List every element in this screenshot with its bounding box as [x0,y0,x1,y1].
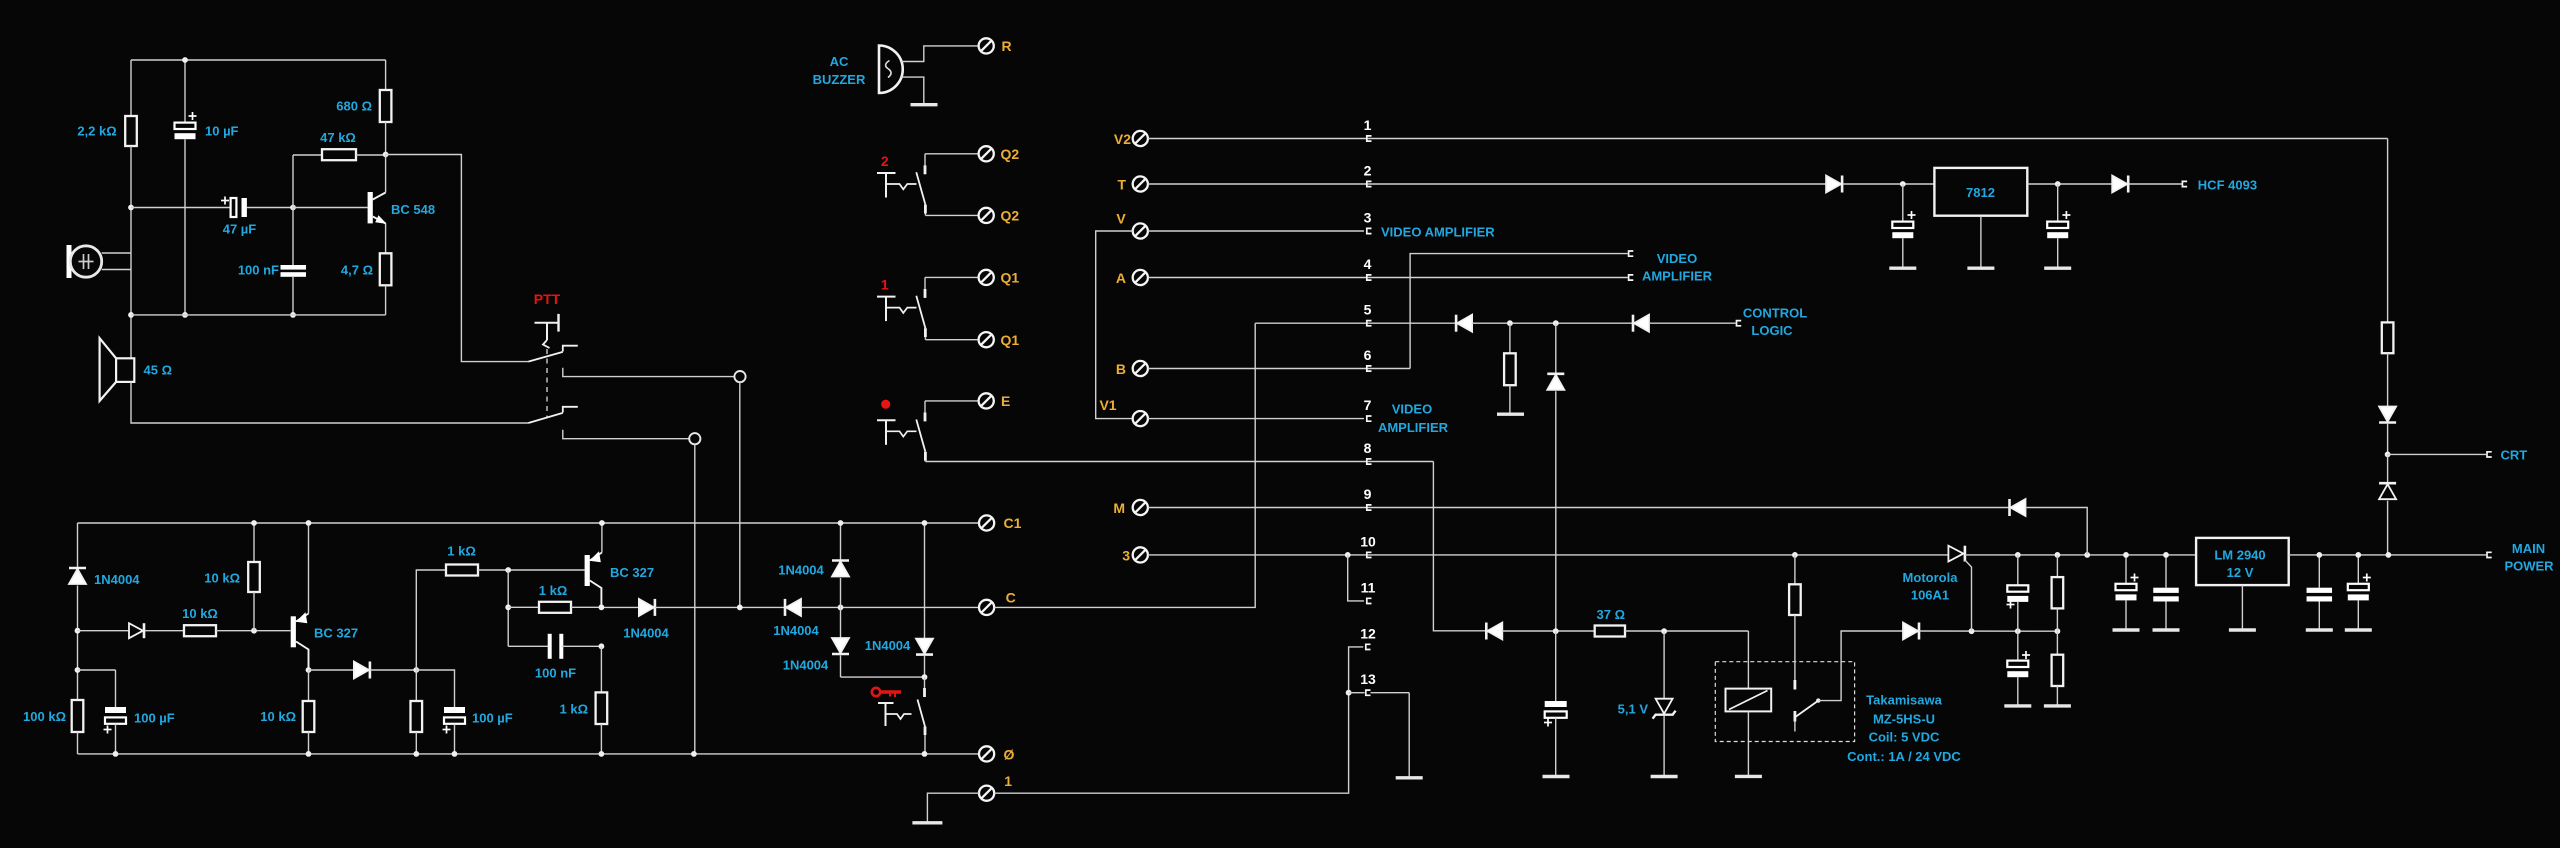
capacitor 47 uF [131,207,231,209]
wire diode down to relay line [1555,391,1557,631]
svg-text:V2: V2 [1114,131,1131,147]
terminal T [1133,176,1148,191]
svg-text:VIDEO: VIDEO [1392,402,1432,417]
ground 7812 [1967,267,1994,270]
wire base branch down [507,570,509,646]
relay dashed enclosure [1715,662,1854,742]
svg-text:BC 327: BC 327 [314,626,358,641]
svg-text:1N4004: 1N4004 [94,572,140,587]
wire buzzer to ground [902,77,924,105]
svg-text:1N4004: 1N4004 [865,638,911,653]
resistor right edge [2382,322,2394,353]
capacitor main in ceramic [2165,555,2167,588]
resistor 10 kOhm vertical [253,523,255,562]
wire 9 to main line [2026,508,2088,555]
switch key blade [918,700,926,727]
svg-text:1N4004: 1N4004 [783,658,829,673]
svg-text:10: 10 [1360,534,1376,550]
wire terminal 1 right to wires 12 13 [994,647,1363,793]
wire Q1 top [925,276,979,278]
svg-text:AMPLIFIER: AMPLIFIER [1378,420,1449,435]
svg-text:2: 2 [881,153,889,169]
terminal B [1133,361,1148,376]
regulator 7812 [1934,168,2027,216]
svg-text:Coil: 5 VDC: Coil: 5 VDC [1869,730,1940,745]
node junction CRT [2385,452,2391,458]
terminal A [1133,270,1148,285]
ground 7812 output cap [2044,267,2071,270]
relay coil [1747,631,1749,689]
node junction 100nF right [599,643,605,649]
node junction 1k third bottom rail [599,751,605,757]
svg-text:1 kΩ: 1 kΩ [560,702,589,717]
diode relay output [1903,623,1918,640]
wire 11 stub [1348,555,1364,601]
terminal O [979,746,994,761]
node junction cap main in ceramic [2163,552,2169,558]
node junction resistor branch [1507,320,1513,326]
wire 4 A line [1148,277,1628,279]
switch actuator [877,419,896,421]
svg-text:MZ-5HS-U: MZ-5HS-U [1873,712,1935,727]
terminal M [1133,500,1148,515]
svg-text:12 V: 12 V [2227,565,2254,580]
wire collector node to PTT [386,155,529,362]
wire Q1 bottom [925,339,978,341]
capacitor below relay line [2017,631,2019,660]
terminal V [1133,223,1148,238]
node junction cap mid branch [2015,628,2021,634]
resistor 680 Ohm [385,60,387,90]
node junction left col bottom rail [128,312,134,318]
svg-text:7: 7 [1364,397,1372,413]
node junction base branch [505,567,511,573]
svg-text:1 kΩ: 1 kΩ [539,583,568,598]
ground cap main out polar [2345,628,2372,631]
resistor 37 Ohm [1595,626,1625,637]
capacitor 7812 output [2057,184,2059,222]
terminal C1 [979,515,994,530]
node junction C1 line 10k [251,520,257,526]
svg-text:VIDEO: VIDEO [1657,251,1697,266]
wire node A down to C line [739,382,741,607]
switch key top contact [924,677,926,688]
diode 1N4004 wire8 [1485,623,1488,640]
switch top contact [924,277,926,289]
node junction main line right [2386,552,2392,558]
svg-text:LM 2940: LM 2940 [2214,548,2265,563]
svg-text:Takamisawa: Takamisawa [1866,693,1942,708]
capacitor main in polarized [2125,555,2127,584]
svg-text:Ø: Ø [1004,747,1015,763]
ground relay coil [1735,775,1762,778]
resistor 1 kOhm third [600,646,602,692]
wire C1 line [78,522,980,524]
diode 1N4004 down from C1 line at key switch [924,523,926,639]
svg-text:1: 1 [1004,773,1012,789]
node junction left col base line [128,205,134,211]
node junction SCR gate [1969,628,1975,634]
node junction x416 column [413,667,419,673]
wire speaker to PTT lower pole [131,382,528,423]
ground 7812 input cap [1889,267,1916,270]
resistor wire5 to ground [1509,323,1511,353]
wire left column bottom circuit [77,523,79,568]
diode 1N4004 collector output [309,669,354,671]
node junction node B bottom rail [691,751,697,757]
svg-text:9: 9 [1364,486,1372,502]
switch blade [916,172,925,204]
diode on T line [1826,176,1841,193]
thyristor Motorola 106A1 [1948,546,1963,562]
terminal R [979,38,994,53]
svg-text:45 Ω: 45 Ω [144,363,173,378]
node junction cap branch left [75,667,81,673]
wire 13 [1349,692,1365,694]
svg-text:Q1: Q1 [1001,270,1020,286]
svg-text:100 nF: 100 nF [535,666,576,681]
svg-text:100 µF: 100 µF [472,711,513,726]
connector circle node A [734,371,745,382]
svg-text:M: M [1113,500,1125,516]
svg-text:CONTROL: CONTROL [1743,306,1807,321]
node junction 100uF right bottom rail [452,751,458,757]
svg-text:2: 2 [1364,163,1372,179]
node junction key switch top [922,674,928,680]
diode right edge up outline [2387,454,2389,483]
svg-text:VIDEO AMPLIFIER: VIDEO AMPLIFIER [1381,225,1495,240]
capacitor 100 uF right [416,670,454,707]
wire 6 B line [1148,368,1410,370]
node junction res divider wire10 [2055,552,2061,558]
resistor 10 kOhm below BC327 [308,670,310,701]
svg-text:BC 548: BC 548 [391,202,435,217]
wire 13 down to ground [1408,693,1410,778]
svg-text:R: R [1002,38,1012,54]
node junction C1 line at 924 [922,520,928,526]
svg-text:4,7 Ω: 4,7 Ω [341,263,373,278]
wire main power line out [2289,554,2486,556]
wire V to V1 bracket [1096,231,1133,419]
wire V2 riser right edge [2387,139,2389,323]
svg-text:11: 11 [1361,580,1376,596]
svg-text:7812: 7812 [1966,185,1995,200]
switch PTT pole 1 [528,352,563,362]
wire buzzer to R terminal [902,46,979,62]
node junction BC327 second emitter [599,520,605,526]
svg-text:T: T [1117,177,1126,193]
node junction BC327 collector [306,667,312,673]
wire C line left segment [601,606,639,608]
wire left column [130,60,132,116]
capacitor main out ceramic [2318,555,2320,588]
wire branch to key switch [841,676,925,678]
wire C line right to wire 5 riser [994,323,1255,607]
terminal Q2 bottom [979,208,994,223]
node junction node A on C line [737,605,743,611]
capacitor 100 nF second [508,645,549,647]
node junction x416 bottom rail [413,751,419,757]
svg-text:LOGIC: LOGIC [1751,323,1793,338]
wire 1k to BC327 second base [478,569,585,571]
svg-text:2,2 kΩ: 2,2 kΩ [77,124,116,139]
switch E red dot [881,400,890,409]
relay switch pivot [1816,698,1820,702]
svg-text:8: 8 [1364,440,1372,456]
svg-text:BC 327: BC 327 [610,565,654,580]
svg-text:POWER: POWER [2504,559,2554,574]
svg-text:AMPLIFIER: AMPLIFIER [1642,269,1713,284]
diode 1N4004 up from C1 line [840,523,842,561]
node junction 100nF bottom [290,312,296,318]
wire relay common [1818,631,1903,701]
node junction wire9 join [2084,552,2090,558]
wire 6 riser to video amplifier [1410,254,1628,369]
diode 1N4004 on C line pointing left [784,599,787,616]
wire Q2 bottom [925,214,978,216]
wire 7812 ground pin [1980,216,1982,269]
node junction bottom rail BC327 [306,751,312,757]
resistor 47 kOhm [292,155,294,208]
wire E top [925,400,979,402]
svg-text:Q2: Q2 [1001,208,1020,224]
svg-text:MAIN: MAIN [2512,541,2545,556]
terminal V1 [1133,411,1148,426]
node junction 100uF bottom rail [113,751,119,757]
svg-text:Cont.: 1A / 24 VDC: Cont.: 1A / 24 VDC [1847,749,1961,764]
svg-text:13: 13 [1360,671,1376,687]
svg-text:Q1: Q1 [1001,332,1020,348]
node junction relay resistor wire 10 [1792,552,1798,558]
svg-text:1: 1 [1364,117,1372,133]
svg-text:100 kΩ: 100 kΩ [23,709,66,724]
node junction 10uF top rail [182,57,188,63]
node junction cap main out ceramic [2316,552,2322,558]
connector circle node B [689,433,700,444]
wire mic top lead [102,252,131,254]
switch bottom contact [924,452,927,461]
ground cap main in polar [2113,628,2140,631]
node junction up diode C1 line [838,520,844,526]
switch top contact [924,154,926,166]
wire 10 after SCR [1965,554,2196,556]
node junction base node [290,205,296,211]
switch bottom contact [924,328,927,337]
ground wire5 resistor [1497,413,1524,416]
wire bottom rail [78,753,980,755]
svg-text:C1: C1 [1004,515,1022,531]
switch key actuator [878,702,894,704]
node junction cap1 wire10 [2015,552,2021,558]
speaker 45 Ohm [116,358,134,382]
diode right edge down [2379,407,2396,422]
ground cap main in ceramic [2153,628,2180,631]
ground zener [1651,775,1678,778]
diode wire5 right [1632,315,1635,332]
ground diode chain cap [1543,775,1570,778]
wire LM2940 ground pin [2241,585,2243,630]
resistor divider upper [2056,555,2058,577]
relay switch blade [1795,701,1819,718]
transistor BC 327 second [601,523,603,553]
diode 7812 output [2112,176,2127,193]
capacitor 7812 input [1902,184,1904,222]
resistor 4,7 Ohm [385,224,387,254]
diode small outline on base line [78,630,130,632]
wire 2 T line [1148,183,1826,185]
key icon red [872,688,901,697]
svg-text:1N4004: 1N4004 [773,623,819,638]
microphone MIC [67,245,72,278]
svg-text:AC: AC [830,54,849,69]
node junction 7812 input cap [1900,181,1906,187]
wire relay coil to ground [1747,711,1749,776]
wire 7812 output [2027,183,2112,185]
terminal Q1 bottom [979,332,994,347]
svg-text:V1: V1 [1099,397,1116,413]
wire node B down to bottom rail [694,444,696,754]
ground cap main out ceramic [2306,628,2333,631]
svg-text:680 Ω: 680 Ω [336,99,372,114]
svg-text:Q2: Q2 [1001,146,1020,162]
wire 12 tick [1366,644,1371,649]
wire mic bottom lead [102,269,131,271]
diode on wire 9 [2008,499,2011,516]
svg-text:12: 12 [1360,626,1376,642]
switch PTT pole 2 [528,413,563,423]
svg-text:10 µF: 10 µF [205,124,239,139]
zener diode 5,1 V [1663,631,1665,699]
diode 1N4004 down below C line [840,607,842,638]
svg-text:4: 4 [1364,256,1372,272]
capacitor between wire10 and relay line [2017,555,2019,585]
switch bottom contact [924,205,927,214]
svg-text:Motorola: Motorola [1903,570,1959,585]
resistor 1 kOhm first [416,570,446,670]
svg-text:10 kΩ: 10 kΩ [260,709,296,724]
wire terminal 1 to ground [927,793,979,823]
svg-text:C: C [1006,590,1016,606]
wire 1 V2 line [1148,138,2388,140]
svg-text:BUZZER: BUZZER [813,72,866,87]
resistor 1 kOhm second [508,606,539,608]
wire 47uF to base node [247,207,293,209]
switch PTT actuator [535,322,558,324]
svg-text:B: B [1116,361,1126,377]
node junction 1k second [505,604,511,610]
diode vertical cathode-up [1555,323,1557,374]
svg-text:37 Ω: 37 Ω [1597,607,1626,622]
svg-text:47 kΩ: 47 kΩ [320,130,356,145]
terminal C [979,600,994,615]
node junction cap main in [2123,552,2129,558]
svg-text:E: E [1001,393,1010,409]
wire 9 M line [1148,507,2010,509]
wire left column lower [130,146,132,358]
ground LM2940 [2229,628,2256,631]
svg-text:100 nF: 100 nF [238,263,279,278]
svg-text:5,1 V: 5,1 V [1618,702,1649,717]
svg-text:1N4004: 1N4004 [778,563,824,578]
ground resistor divider [2044,704,2071,707]
capacitor at diode chain [1555,631,1557,701]
terminal Q1 top [979,270,994,285]
terminal 3 [1133,547,1148,562]
svg-text:3: 3 [1122,548,1130,564]
resistor 10 kOhm horizontal [145,630,184,632]
ground terminal 1 [912,821,942,824]
node junction diode pair branch [838,605,844,611]
svg-text:HCF 4093: HCF 4093 [2198,178,2257,193]
wire 10 line [1148,554,1949,556]
wire 5 control logic line [1255,322,1456,324]
switch actuator [877,296,896,298]
node junction zener branch [1661,628,1667,634]
resistor relay contact pullup [1794,555,1796,584]
svg-text:10 kΩ: 10 kΩ [182,606,218,621]
wire CRT stub [2388,453,2487,455]
svg-text:5: 5 [1364,302,1372,318]
buzzer AC BUZZER [879,46,903,94]
node junction wire 11 stub [1345,552,1351,558]
wire 8 from switch E [925,461,1433,463]
resistor 100 kOhm [72,700,84,732]
regulator LM 2940 [2196,538,2289,585]
wire amp bottom rail [131,314,386,316]
capacitor 100 uF left [78,669,116,671]
svg-text:10 kΩ: 10 kΩ [204,571,240,586]
wire 3 V line [1148,230,1364,232]
capacitor 100 nF [292,208,294,266]
node junction 7812 output cap [2055,181,2061,187]
svg-text:1N4004: 1N4004 [623,626,669,641]
wire 7 V1 line [1148,418,1364,420]
node junction collector node [383,152,389,158]
svg-text:1: 1 [881,277,889,293]
capacitor main out polarized [2357,555,2359,584]
ground cap below relay line [2004,704,2031,707]
node junction BC327 emitter C1 line [306,520,312,526]
switch blade [916,296,925,328]
svg-text:V: V [1116,211,1126,227]
svg-text:CRT: CRT [2501,448,2528,463]
diode 1N4004 on C line pointing right [639,599,654,616]
wire 8 riser down [1433,462,1486,631]
node junction 10k vertical [251,628,257,634]
transistor BC 327 first [308,523,310,614]
wire top rail mic preamp [131,59,386,61]
wire Q2 top [925,153,979,155]
resistor 2,2 kOhm [125,116,137,146]
resistor divider lower [2056,631,2058,655]
svg-text:PTT: PTT [534,291,561,307]
terminal V2 [1133,131,1148,146]
node junction diode chain [1553,628,1559,634]
svg-text:106A1: 106A1 [1911,588,1949,603]
wire PTT dashed link [546,349,548,418]
node junction collector node second [599,604,605,610]
node junction key switch bottom rail [922,751,928,757]
terminal Q2 top [979,146,994,161]
svg-text:A: A [1116,270,1126,286]
svg-text:3: 3 [1364,210,1372,226]
switch key bottom contact [924,727,927,736]
node junction diode branch [1553,320,1559,326]
switch top contact [924,401,926,413]
svg-text:1 kΩ: 1 kΩ [447,544,476,559]
node junction resistor divider mid [2055,628,2061,634]
svg-text:6: 6 [1364,347,1372,363]
